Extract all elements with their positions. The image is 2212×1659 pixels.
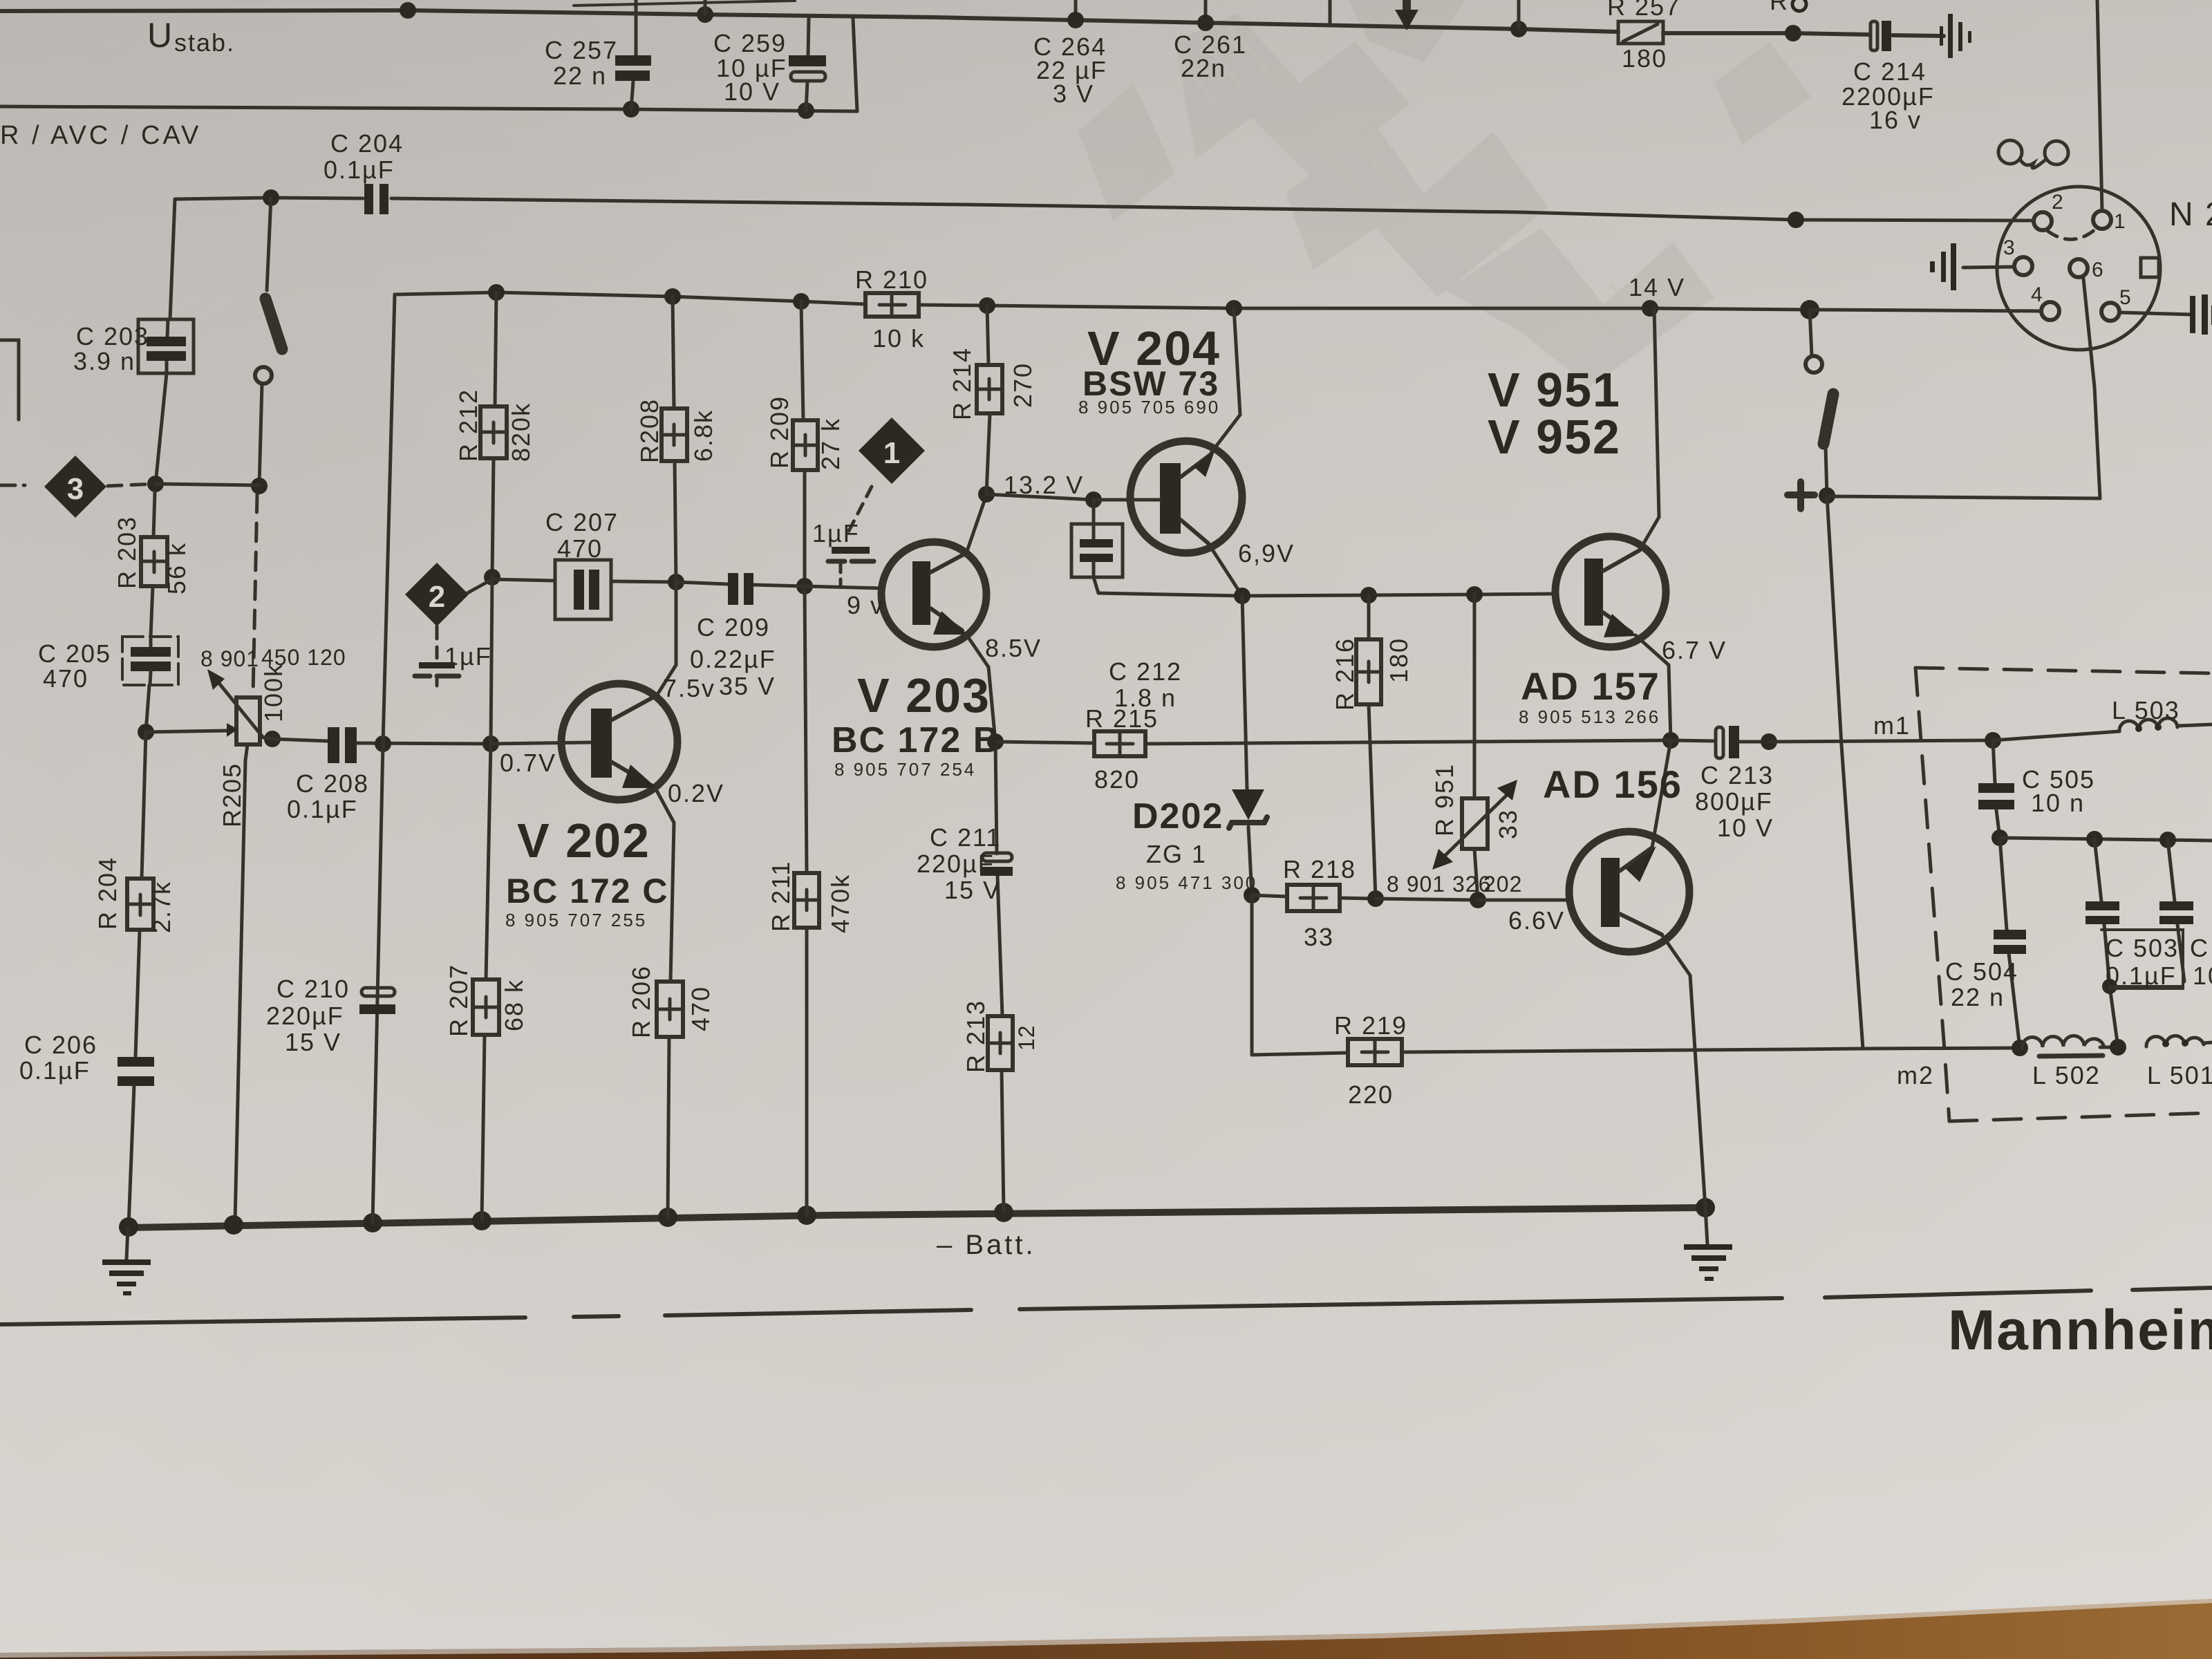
wire: horizontal line below Ustab (y~157) xyxy=(0,106,857,111)
wire: stub above line B x=1924 xyxy=(1329,0,1332,26)
node: junction dot C204 line left xyxy=(263,189,279,206)
svg-text:AD 157: AD 157 xyxy=(1521,664,1660,708)
wire: C213 right lead to junction xyxy=(1739,740,1769,744)
svg-text:5: 5 xyxy=(2119,286,2131,309)
wire: pin6 riser xyxy=(2083,279,2100,498)
svg-text:10 n: 10 n xyxy=(2031,789,2085,817)
node: junction dot C505 top xyxy=(1985,732,2001,749)
node: junction dot below C505 xyxy=(1991,829,2008,846)
wire: stub above line B for C261 xyxy=(1204,0,1208,23)
svg-text:1: 1 xyxy=(2114,210,2126,233)
wire: V204 emitter to 6.9V junction xyxy=(1208,543,1242,596)
svg-text:1: 1 xyxy=(883,436,900,470)
connector N2 pin 1 xyxy=(2093,211,2111,229)
wire: 6.9V line xyxy=(1098,593,1555,596)
wire: pot lower terminal down to bottom rail xyxy=(235,744,247,1222)
svg-text:R 212: R 212 xyxy=(454,388,482,462)
svg-text:R 257: R 257 xyxy=(1607,0,1680,21)
svg-text:10: 10 xyxy=(2193,962,2212,990)
wire: C212 bottom to 6.9V line corner xyxy=(1094,562,1098,593)
svg-text:2: 2 xyxy=(2052,191,2063,214)
wire: rail to pin 4 xyxy=(1810,310,2041,311)
svg-text:R 219: R 219 xyxy=(1334,1011,1407,1040)
wire: inner horizontal to C503/C502 xyxy=(2000,838,2212,841)
resistor R218 wires xyxy=(1252,895,1287,897)
ground bars left of pin3 xyxy=(1930,261,1935,272)
wire: V204 collector to rail xyxy=(1211,308,1240,453)
svg-text:N 2: N 2 xyxy=(2169,196,2212,233)
node: junction dot C503 on m2 xyxy=(2110,1039,2126,1056)
resistor R257 box with slash xyxy=(1618,21,1663,44)
svg-text:0.1µF: 0.1µF xyxy=(324,156,395,184)
wire: V203 collector to 13.2V junction xyxy=(966,495,986,553)
resistor R219 box (horizontal) xyxy=(1348,1039,1402,1065)
wire: m1 line to L503 coil xyxy=(1993,731,2119,740)
wire: C209 junction right to V203 base xyxy=(805,586,883,588)
wire: C208 to left border junction and V202 base xyxy=(357,743,491,744)
node: junction dot C204 line at x2598 xyxy=(1788,212,1804,228)
svg-text:AD 156: AD 156 xyxy=(1543,762,1683,806)
svg-text:0.1µF: 0.1µF xyxy=(2106,962,2177,990)
connector N2 key notch xyxy=(2141,258,2159,277)
capacitor C207 box xyxy=(555,560,611,619)
node: junction dot m1/AD157 xyxy=(1662,732,1679,749)
wire: base junction down to R207 xyxy=(486,744,491,980)
transistor V203 collector lead xyxy=(930,553,966,572)
transistor V204 circle xyxy=(1130,441,1242,553)
svg-text:470: 470 xyxy=(686,986,715,1031)
svg-text:stab.: stab. xyxy=(174,28,235,57)
ground symbol right of C214 (vertical bars) xyxy=(1940,26,1943,46)
capacitor C210 plates on border vertical xyxy=(362,988,395,996)
svg-text:BC 172 B: BC 172 B xyxy=(832,720,1000,760)
wire: battery feed vertical from rail junction x2618 xyxy=(1810,310,1812,356)
node: junction dot C502 top xyxy=(2159,832,2176,848)
svg-text:C 503: C 503 xyxy=(2106,934,2179,962)
svg-text:8 901 326: 8 901 326 xyxy=(1387,872,1491,897)
svg-text:470: 470 xyxy=(557,534,603,563)
svg-text:10 k: 10 k xyxy=(872,324,925,353)
node: junction dot R216 bottom xyxy=(1367,890,1384,907)
svg-text:m2: m2 xyxy=(1897,1061,1934,1089)
transistor V203 circle xyxy=(881,542,986,647)
transistor AD156 collector lead with arrow (PNP in) xyxy=(1620,847,1652,871)
transistor V202 emitter lead with arrow xyxy=(611,762,651,785)
svg-text:ZG 1: ZG 1 xyxy=(1146,840,1207,868)
divider dashed line above Mannheim xyxy=(0,1318,525,1324)
resistor R203 wires xyxy=(153,492,155,537)
wire: AD156 emitter down to rail xyxy=(1662,935,1705,1208)
capacitor C259 wires xyxy=(808,18,809,55)
svg-text:m1: m1 xyxy=(1873,711,1911,740)
svg-text:180: 180 xyxy=(1385,637,1413,683)
svg-text:C 259: C 259 xyxy=(713,29,787,57)
marker diamond 3 xyxy=(44,456,106,518)
svg-text:8 905 705 690: 8 905 705 690 xyxy=(1078,397,1220,418)
wire: dash from diamond 3 to junction xyxy=(108,484,156,486)
resistor R216 wires xyxy=(1367,595,1371,639)
switch S1 contact circle xyxy=(255,367,272,384)
svg-text:BC 172 C: BC 172 C xyxy=(506,872,669,910)
node: junction dot C504 on m2 xyxy=(2012,1040,2028,1056)
wire: C206 to bottom rail xyxy=(129,1086,134,1226)
svg-text:8.5V: 8.5V xyxy=(985,634,1042,662)
svg-text:C 210: C 210 xyxy=(276,975,350,1003)
switch S1 upper-left: wire from C204 junction down xyxy=(267,198,271,290)
svg-text:L 501: L 501 xyxy=(2147,1061,2212,1089)
transistor V202 collector lead xyxy=(611,695,657,720)
resistor R210 box (horizontal) xyxy=(865,293,919,317)
capacitor C212 box xyxy=(1071,524,1123,577)
node: junction dot C213 right xyxy=(1761,733,1777,750)
wire: -Batt bottom rail (thick) xyxy=(128,1208,1705,1228)
switch S1 lever xyxy=(265,299,282,349)
svg-text:6.7 V: 6.7 V xyxy=(1662,636,1727,664)
transistor V203 emitter lead with arrow xyxy=(930,608,962,630)
wire: pin3 to bar-ground xyxy=(1963,267,2014,268)
switch S2 contact circle xyxy=(1806,356,1822,373)
svg-text:33: 33 xyxy=(1494,809,1522,839)
node: junction dot C212 top xyxy=(1085,491,1102,508)
switch S2 lever xyxy=(1824,394,1833,444)
connector N2 dashed arc pin2-pin1 xyxy=(2047,229,2096,239)
svg-text:0.1µF: 0.1µF xyxy=(19,1056,91,1085)
diode D202 (zener) xyxy=(1232,789,1264,820)
node: junction dot plus xyxy=(1819,487,1835,504)
svg-text:V 952: V 952 xyxy=(1488,410,1621,464)
transistor AD157 collector lead xyxy=(1603,550,1640,571)
capacitor C257 plates xyxy=(615,55,651,66)
dashed box top edge xyxy=(1915,668,2212,673)
node: junction dot V203 emitter / m1 xyxy=(987,733,1004,750)
svg-text:0.1µF: 0.1µF xyxy=(287,795,358,823)
node: junction dot line B x=2594 xyxy=(1785,25,1801,41)
wire: below switch circle to junction xyxy=(259,384,262,485)
svg-text:R / AVC / CAV: R / AVC / CAV xyxy=(0,121,201,150)
node: junction dot C207 line x712 xyxy=(484,569,500,585)
svg-text:U: U xyxy=(147,16,174,55)
svg-text:10 V: 10 V xyxy=(724,77,780,106)
inductor L501 coil (air) xyxy=(2146,1036,2204,1047)
node: junction dot y157 line at C259 xyxy=(798,102,814,119)
svg-text:33: 33 xyxy=(1304,923,1334,951)
svg-text:800µF: 800µF xyxy=(1695,787,1773,816)
svg-text:35 V: 35 V xyxy=(719,672,776,700)
connector N2 pin 6 xyxy=(2070,259,2088,277)
node: rail junction dots xyxy=(119,1217,138,1237)
svg-text:270: 270 xyxy=(1009,362,1037,408)
node: junction dot D202 bottom xyxy=(1244,887,1260,903)
capacitor C504 plates xyxy=(1994,930,2026,939)
wire: top line A partial xyxy=(574,1,795,6)
capacitor C214 plates on line B xyxy=(1871,21,1877,50)
wire: to AD156 base xyxy=(1478,899,1569,902)
svg-text:220µF: 220µF xyxy=(917,850,995,878)
svg-text:15 V: 15 V xyxy=(944,876,1001,904)
svg-text:R205: R205 xyxy=(218,762,246,827)
svg-text:6,9V: 6,9V xyxy=(1238,539,1295,568)
resistor R209 box xyxy=(793,420,818,470)
wire: R218 junction to R951 junction xyxy=(1376,899,1478,900)
wire: C213 left lead xyxy=(1671,740,1716,741)
wire: m1 line continues right to L503 xyxy=(1769,740,1993,742)
connector N2 pin 4 xyxy=(2041,302,2059,320)
wire: R208 junction down to V202 collector xyxy=(658,582,676,693)
wood table at bottom xyxy=(0,1599,2212,1659)
svg-text:4: 4 xyxy=(2031,283,2043,306)
resistor R214 box xyxy=(977,365,1002,413)
wire: R212 junction down to base junction xyxy=(491,577,492,744)
node: junction dot on line B x=590 xyxy=(400,2,416,19)
node: junction dot R951 top xyxy=(1466,586,1483,603)
svg-text:C 257: C 257 xyxy=(545,36,618,64)
resistor R208 box xyxy=(662,409,687,461)
svg-text:0.2V: 0.2V xyxy=(668,779,724,807)
main block left border vertical xyxy=(373,294,395,1223)
dashed box left edge xyxy=(1915,668,1949,1121)
wire: R206 to rail xyxy=(668,1037,669,1217)
capacitor C213 plates xyxy=(1716,727,1723,758)
wire: dashed link 1uF to diamond 1 xyxy=(849,485,872,531)
wire: AD156 collector to m1 junction xyxy=(1652,740,1671,847)
ground symbol below rail left xyxy=(126,1228,128,1259)
wire: between junctions y~702 xyxy=(156,484,259,485)
svg-text:202: 202 xyxy=(1483,872,1522,897)
svg-text:C 206: C 206 xyxy=(24,1031,97,1059)
resistor R204 box xyxy=(127,879,153,930)
wire: stub above line B for C264 xyxy=(1074,0,1078,20)
resistor R216 box xyxy=(1356,639,1381,704)
potentiometer R951 box xyxy=(1462,798,1488,849)
wire: C205 to junction xyxy=(146,685,149,732)
svg-text:R 216: R 216 xyxy=(1331,637,1359,711)
svg-text:C 208: C 208 xyxy=(296,769,369,798)
marker diamond 2 xyxy=(405,563,469,626)
node: junction dot base wire x710 xyxy=(482,735,499,752)
svg-text:3: 3 xyxy=(2003,236,2015,259)
svg-text:13.2 V: 13.2 V xyxy=(1004,471,1084,499)
svg-text:R 951: R 951 xyxy=(1430,763,1459,836)
svg-text:6.6V: 6.6V xyxy=(1508,906,1565,935)
svg-text:1µF: 1µF xyxy=(444,642,492,671)
transistor V204 collector lead with arrow (NPN up) xyxy=(1181,454,1211,477)
svg-text:C 203: C 203 xyxy=(76,322,149,350)
svg-text:R 213: R 213 xyxy=(962,1000,990,1073)
transistor V204 emitter lead xyxy=(1181,520,1208,543)
svg-text:C 211: C 211 xyxy=(930,823,1001,852)
left edge partial block outline xyxy=(0,340,19,420)
connector N2 pin 2 xyxy=(2034,212,2052,230)
svg-text:3.9 n: 3.9 n xyxy=(73,347,135,375)
svg-text:470k: 470k xyxy=(826,874,854,933)
svg-text:0.7V: 0.7V xyxy=(500,749,556,777)
resistor R206 box xyxy=(657,982,683,1037)
svg-text:68 k: 68 k xyxy=(500,979,528,1031)
capacitor at right edge by pin5 xyxy=(2190,296,2195,333)
svg-text:27 k: 27 k xyxy=(816,418,845,470)
svg-text:V 202: V 202 xyxy=(517,814,650,868)
dashed box bottom edge xyxy=(1949,1113,2212,1121)
node: junction dot R216 top xyxy=(1360,587,1377,603)
node: junction dot left border x554 xyxy=(375,735,391,752)
svg-text:C 207: C 207 xyxy=(545,508,619,536)
capacitor C257 wires xyxy=(635,0,638,55)
node: junction dots on diamond3 wire xyxy=(147,476,164,492)
transistor AD156 circle xyxy=(1569,832,1689,952)
svg-text:C 204: C 204 xyxy=(330,129,404,158)
svg-text:C 5: C 5 xyxy=(2190,934,2212,962)
svg-text:10 V: 10 V xyxy=(1717,814,1774,842)
box around C503 label xyxy=(2101,930,2183,988)
wire: 13.2V line to V204 base xyxy=(986,494,1094,500)
wire: lever to plus junction xyxy=(1826,448,1827,495)
resistor R211 box xyxy=(794,873,819,928)
node: junction dot C503 lower xyxy=(2102,979,2117,994)
wire: thick arrow stub into line B x=2035 xyxy=(1403,0,1411,12)
svg-text:R208: R208 xyxy=(635,398,664,463)
capacitor C503 plates xyxy=(2086,901,2119,910)
svg-text:R 214: R 214 xyxy=(948,347,976,420)
wire: R215 to C213 xyxy=(1145,740,1671,744)
svg-text:1µF: 1µF xyxy=(812,519,860,547)
wire: line B continues after R257 to C214 xyxy=(1663,33,1869,35)
resistor R212 wires xyxy=(495,292,496,406)
svg-text:V 203: V 203 xyxy=(857,668,991,722)
wire: R207 to rail xyxy=(482,1035,485,1221)
wire: AD157 emitter to m1 junction xyxy=(1635,635,1671,740)
main block top rail y~426-448 xyxy=(395,292,865,304)
resistor R209 wires xyxy=(801,301,803,420)
wire: battery vertical down to m2 line xyxy=(1827,496,1863,1049)
svg-text:C 213: C 213 xyxy=(1700,761,1774,789)
wire: R213 to rail xyxy=(1002,1070,1004,1212)
svg-text:8 901: 8 901 xyxy=(200,646,259,671)
capacitor 1uF at diamond 1 (dashed) xyxy=(832,547,870,554)
svg-text:C 504: C 504 xyxy=(1945,957,2018,986)
wire: plus wire right to pin6 riser xyxy=(1827,496,2100,498)
wire: pin1 riser from top xyxy=(2097,0,2102,211)
connector N2 circle xyxy=(1997,187,2160,350)
resistor R211 wires xyxy=(805,586,807,873)
potentiometer R951 wires xyxy=(1473,594,1477,798)
capacitor C209 plates xyxy=(728,573,738,605)
wire: junction to pot R205 wiper xyxy=(146,731,228,732)
wire: pot bottom to C208 xyxy=(260,737,272,739)
wire: V203 emitter to m1 junction xyxy=(966,635,995,742)
svg-text:7.5v: 7.5v xyxy=(663,674,715,702)
capacitor C505 plates xyxy=(1978,783,2014,793)
capacitor C211 wires xyxy=(995,742,997,854)
capacitor C503 wires xyxy=(2094,839,2101,901)
wire: C207 line from junction to R208 junction xyxy=(492,579,555,581)
node: junction dot pot bottom right xyxy=(264,731,281,747)
svg-text:C 209: C 209 xyxy=(697,613,770,641)
svg-text:8 905 707 254: 8 905 707 254 xyxy=(834,759,976,780)
wire: corner down to C203 xyxy=(170,199,175,319)
svg-text:16 v: 16 v xyxy=(1869,106,1922,134)
potentiometer R205 box xyxy=(236,697,260,744)
wire: V202 emitter to R206 xyxy=(655,788,674,982)
svg-text:R 215: R 215 xyxy=(1085,704,1159,733)
wire: C209 line from x978 junction through cap xyxy=(676,582,728,584)
potentiometer R205 wiper arrowhead xyxy=(227,723,238,737)
svg-text:– Batt.: – Batt. xyxy=(937,1230,1036,1260)
svg-text:220µF: 220µF xyxy=(266,1002,344,1030)
svg-text:8 905 513 266: 8 905 513 266 xyxy=(1519,706,1660,727)
transistor V202 base bar xyxy=(591,709,612,778)
node: junction dot 13.2V xyxy=(978,486,995,503)
node: junction dot line B x=2197 xyxy=(1510,21,1527,37)
svg-text:R 206: R 206 xyxy=(627,965,655,1038)
svg-text:L 502: L 502 xyxy=(2032,1061,2101,1089)
svg-text:8 905 471 300: 8 905 471 300 xyxy=(1116,872,1257,893)
resistor R218 box (horizontal) xyxy=(1287,885,1340,911)
wire: C503 label box link xyxy=(2110,985,2183,988)
capacitor C504 wires xyxy=(2000,838,2007,930)
svg-text:820k: 820k xyxy=(507,402,535,462)
wire: base wire to V202 xyxy=(491,742,591,744)
svg-text:C 212: C 212 xyxy=(1109,657,1182,686)
potentiometer R951 diagonal double arrow xyxy=(1441,792,1510,859)
node: junction dot on line B x=1020 with stub up xyxy=(697,6,713,23)
svg-text:22n: 22n xyxy=(1181,54,1226,82)
transistor V203 base bar xyxy=(912,561,930,625)
capacitor C505 wires xyxy=(1993,740,1995,783)
lighting: bright wedge bottom right of paper xyxy=(0,0,1,1)
marker diamond 1 xyxy=(859,418,925,484)
wire: C204 line from left corner to N2 pin2 xyxy=(175,198,363,199)
resistor R203 box xyxy=(141,537,167,586)
capacitor C206 plates xyxy=(118,1057,154,1067)
svg-text:470: 470 xyxy=(43,664,88,693)
svg-text:R 211: R 211 xyxy=(767,861,795,932)
wire: top rail line B xyxy=(0,10,1618,32)
wire: below C203 to junction xyxy=(156,373,167,484)
svg-text:C 205: C 205 xyxy=(38,639,111,668)
faint watermark shapes top middle-right xyxy=(1078,0,1811,387)
capacitor C203 box xyxy=(138,319,194,373)
svg-text:R 203: R 203 xyxy=(113,516,141,589)
node: junction dot y157 line at C257 xyxy=(623,101,639,118)
wire: line B from C214 to ground xyxy=(1893,35,1944,36)
inductor L502 coil with core bar xyxy=(2022,1036,2103,1048)
wire: m1 line from V203 emitter junction to R215 xyxy=(995,742,1094,743)
svg-text:100k: 100k xyxy=(259,663,288,722)
svg-text:8 905 707 255: 8 905 707 255 xyxy=(505,910,647,930)
svg-text:56 k: 56 k xyxy=(162,542,191,594)
connector N2 pin 3 xyxy=(2014,257,2032,275)
svg-text:R 218: R 218 xyxy=(1283,855,1356,883)
svg-text:R: R xyxy=(1770,0,1789,15)
ground symbol below rail right xyxy=(1705,1208,1707,1244)
resistor R204 wires xyxy=(142,732,146,879)
svg-text:3 V: 3 V xyxy=(1053,79,1094,108)
svg-text:180: 180 xyxy=(1622,44,1667,73)
capacitor C204 plates xyxy=(364,184,373,214)
svg-text:3: 3 xyxy=(67,472,84,506)
resistor R215 box (horizontal) xyxy=(1094,731,1145,756)
svg-text:6: 6 xyxy=(2092,259,2103,281)
svg-text:Mannheim: Mannheim xyxy=(1948,1299,2212,1362)
wire: D202 vertical from V204 emitter junction xyxy=(1242,596,1247,789)
node: junction dot x978 C209 line xyxy=(668,574,684,590)
capacitor 1uF below diamond 2 (dashed style) xyxy=(435,626,439,658)
svg-text:820: 820 xyxy=(1094,765,1140,794)
svg-text:2.7k: 2.7k xyxy=(147,881,176,933)
wire: V204 base wire xyxy=(1094,498,1160,502)
transistor AD157 emitter lead with arrow xyxy=(1603,612,1631,632)
node: rail junction dots xyxy=(488,284,505,301)
